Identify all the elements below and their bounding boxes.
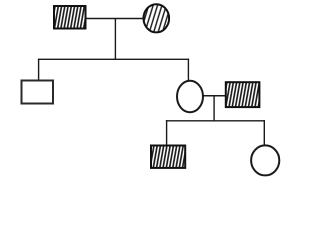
unaffected female II-2 (open circle) — [177, 81, 203, 113]
drop line to II-1 square — [38, 59, 40, 81]
descent line from couple I — [114, 19, 116, 61]
unaffected female III-2 (open circle) — [251, 145, 279, 175]
drop line to II-2 circle — [187, 59, 189, 81]
unaffected male II-1 (open square) — [22, 81, 54, 104]
affected male I-1 (hatched square) — [54, 6, 86, 29]
marriage line I-1 to I-2 — [86, 18, 143, 20]
sibling line generation II — [38, 58, 189, 60]
drop line to III-1 square — [166, 120, 168, 145]
affected female I-2 (hatched circle) — [144, 4, 170, 32]
sibling line generation III — [166, 120, 265, 122]
drop line to III-2 circle — [263, 120, 265, 145]
affected male III-1 (hatched square) — [151, 146, 185, 168]
affected male II-3 (hatched square) — [226, 82, 260, 107]
couple line II-2 to II-3 — [203, 95, 226, 97]
descent line from couple II — [213, 96, 215, 122]
